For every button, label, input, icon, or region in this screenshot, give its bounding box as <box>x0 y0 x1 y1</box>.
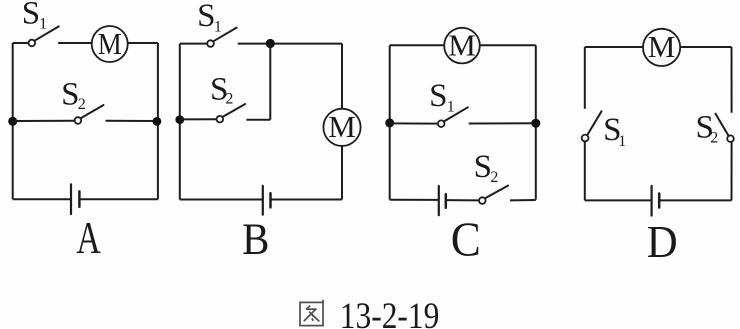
svg-text:1: 1 <box>618 133 626 150</box>
svg-text:S: S <box>61 76 79 112</box>
wire A bottom-right segment <box>79 198 157 200</box>
wire D left vertical upper <box>584 47 586 109</box>
wire A top-left segment <box>13 42 29 44</box>
wire B bottom-right segment <box>271 199 343 201</box>
label S2 (B) <box>210 72 233 108</box>
node junction A-left <box>8 117 17 126</box>
motor U1 (D) <box>643 29 680 66</box>
svg-text:S: S <box>22 0 40 32</box>
wire B bottom-left segment <box>180 199 263 201</box>
wire C top-left segment <box>390 44 445 46</box>
node junction C-left <box>385 118 394 127</box>
battery BT1 (A) <box>71 184 79 214</box>
node junction B-left <box>175 115 184 124</box>
label S1 (D) <box>603 112 626 150</box>
wire D right vertical upper <box>731 47 733 113</box>
battery BT1 (C) <box>439 186 446 215</box>
label S1 (B) <box>197 0 222 36</box>
switch S2 (A) <box>75 105 104 124</box>
wire B left vertical <box>179 44 181 200</box>
wire C bottom-right segment <box>510 199 536 201</box>
wire C top-right segment <box>480 44 536 46</box>
svg-text:1: 1 <box>447 99 455 116</box>
wire C left vertical <box>389 45 391 199</box>
switch S2 (D) <box>716 114 734 142</box>
switch S1 (C) <box>438 107 468 127</box>
node junction B-top <box>266 39 275 48</box>
wire C middle-left segment <box>390 122 438 124</box>
svg-text:M: M <box>328 109 356 144</box>
battery BT1 (B) <box>263 186 271 215</box>
svg-text:1: 1 <box>214 19 222 36</box>
wire D bottom-left segment <box>585 199 652 201</box>
wire D bottom-right segment <box>659 199 731 201</box>
label D <box>647 216 678 268</box>
svg-text:M: M <box>648 29 676 64</box>
label C <box>451 213 481 267</box>
switch S1 (B) <box>207 28 236 47</box>
wire A right vertical <box>157 43 159 199</box>
label S2 (A) <box>61 76 86 113</box>
wire C right vertical <box>535 45 537 199</box>
svg-text:M: M <box>98 27 122 61</box>
wire B middle-left segment <box>180 118 217 120</box>
svg-text:2: 2 <box>225 90 233 107</box>
wire C bottom middle segment <box>446 199 479 201</box>
svg-text:C: C <box>451 213 481 267</box>
svg-text:B: B <box>242 215 269 264</box>
label A <box>76 213 101 263</box>
label S2 (C) <box>474 149 499 186</box>
motor U1 (A) <box>92 26 128 62</box>
switch S1 (A) <box>29 26 59 46</box>
wire A bottom-left segment <box>13 198 71 200</box>
wire A middle-left segment <box>13 120 75 122</box>
wire D top-left segment <box>585 46 643 48</box>
svg-text:2: 2 <box>78 96 86 113</box>
label S1 (A) <box>22 0 47 32</box>
wire B top-left segment <box>180 43 208 45</box>
svg-text:A: A <box>76 213 101 263</box>
svg-text:13-2-19: 13-2-19 <box>340 296 440 329</box>
switch S2 (B) <box>217 104 246 122</box>
label B <box>242 215 269 264</box>
caption figure number 13-2-19 <box>340 296 440 329</box>
node junction A-right <box>153 117 162 126</box>
switch S2 (C) <box>479 186 508 204</box>
motor U1 (B) <box>323 109 360 146</box>
node junction C-right <box>531 119 540 128</box>
label S1 (C) <box>429 78 455 116</box>
wire A left vertical <box>12 43 14 199</box>
switch S1 (D) <box>582 111 602 141</box>
svg-text:D: D <box>647 216 678 268</box>
svg-text:1: 1 <box>39 15 47 32</box>
wire D right vertical lower <box>731 142 733 200</box>
wire A top middle segment <box>58 42 92 44</box>
caption figure label: character 图 drawn as strokes <box>300 300 323 326</box>
label S2 (D) <box>696 109 719 146</box>
svg-text:2: 2 <box>710 130 718 147</box>
wire C middle-right segment <box>469 122 536 124</box>
wire B S2 branch vertical <box>269 44 271 120</box>
svg-text:S: S <box>429 78 447 114</box>
wire A middle-right segment <box>106 120 158 122</box>
wire A top-right segment <box>128 42 158 44</box>
wire D top-right segment <box>680 46 731 48</box>
wire C bottom-left segment <box>390 199 439 201</box>
motor U1 (C) <box>444 27 480 63</box>
svg-text:S: S <box>197 0 215 34</box>
svg-text:M: M <box>448 27 476 62</box>
wire B right vertical upper <box>341 44 343 109</box>
battery BT1 (D) <box>652 186 660 216</box>
wire B top-right segment <box>238 43 342 45</box>
wire D left vertical lower <box>584 142 586 201</box>
wire B middle-right segment <box>246 119 270 121</box>
svg-text:2: 2 <box>490 169 498 186</box>
wire B right vertical lower <box>341 146 343 200</box>
svg-text:S: S <box>474 149 492 185</box>
